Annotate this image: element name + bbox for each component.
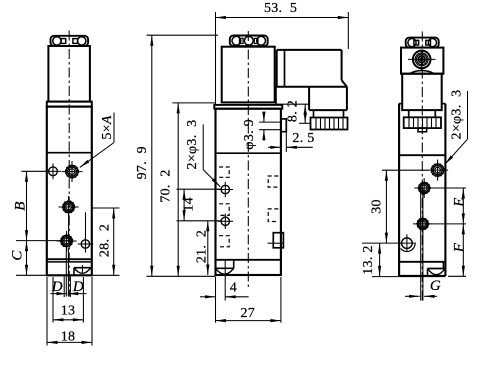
svg-text:2. 5: 2. 5 [292,131,314,146]
dimension C [26,241,28,276]
left view bottom recess dome [73,268,75,275]
dimension B extension lines [22,170,49,172]
svg-text:2×φ3. 3: 2×φ3. 3 [185,120,200,170]
hidden port cavities right column [268,176,278,187]
right view port 3 threaded [417,218,428,229]
pilot hole upper phi3.3 [221,185,229,193]
connector bracket [275,87,277,104]
svg-text:18: 18 [61,330,76,345]
pilot port tab phi3.9 [281,119,286,132]
connector terminal ribbed block [311,118,348,130]
right view mounting hole with counterbore [402,238,413,249]
dimension 53.5 [215,12,217,105]
svg-text:D: D [72,279,84,295]
svg-text:C: C [9,250,25,261]
svg-text:53. 5: 53. 5 [264,1,297,16]
dimension D right [68,293,87,295]
right view bottom recess dome [427,269,429,277]
svg-text:E: E [452,197,468,207]
right view terminal ribbed block [404,117,441,128]
svg-text:30: 30 [370,199,385,214]
dimension 27 [215,277,217,323]
svg-text:70. 2: 70. 2 [159,169,174,202]
middle view body section line [216,152,281,154]
svg-text:13. 2: 13. 2 [361,245,376,275]
dimension D left [51,293,67,295]
dimension 13 [52,277,54,323]
right view centerline [421,32,423,301]
svg-text:G: G [430,278,441,294]
svg-text:8. 2: 8. 2 [286,100,301,122]
right view bottom tab [418,128,427,132]
right view connector face arc [409,71,434,74]
left view port 1 threaded [66,166,78,178]
svg-text:2×φ3. 3: 2×φ3. 3 [449,90,464,140]
left view mounting hole top-left [49,167,58,176]
left view upper solenoid section [48,46,90,102]
left view mounting hole bottom-right [81,240,89,248]
svg-text:13: 13 [61,304,76,319]
svg-text:φ3. 9: φ3. 9 [242,119,257,150]
side clamp tab [273,233,283,248]
middle view adapter plate [214,105,282,109]
left view body section line [47,152,92,154]
right view connector face box [401,48,443,74]
right view cable entry circles [413,51,431,69]
left view adapter plate [47,102,92,107]
dimension 4 [224,261,226,301]
dimension E [432,187,466,189]
dimension 30 [382,169,428,171]
dimension 2.5 [280,132,282,152]
svg-text:5×A: 5×A [100,115,115,140]
dimension F [462,224,464,276]
connector neck [313,110,315,117]
pilot hole lower phi3.3 [221,217,229,225]
left view port 2 threaded [63,201,74,212]
left view mounting cap with nuts [51,36,89,46]
dimension G [405,295,420,297]
dimension 70.2 [172,102,215,104]
connector lower box [308,87,310,110]
right view mounting cap with nuts [406,38,439,48]
svg-text:F: F [452,242,468,253]
left view valve body [47,107,92,276]
svg-text:4: 4 [230,281,237,296]
svg-text:21. 2: 21. 2 [195,230,210,263]
left view base plate lines [47,258,92,260]
right view coil body [402,74,442,110]
middle view centerline [247,31,249,290]
middle view mounting cap with nuts [230,36,268,47]
right view port 1 threaded [432,164,444,176]
middle view base plate line [216,259,281,261]
svg-text:97. 9: 97. 9 [135,146,150,179]
right view plate edges [399,103,402,105]
dimension 97.9 [147,34,219,36]
left view port 3 threaded [61,235,72,246]
dimension 13.2 [379,243,381,276]
dimension 18 [46,277,48,346]
middle view bottom notch [233,260,235,269]
svg-text:27: 27 [240,306,255,321]
right view body section line [399,154,445,156]
dimension phi3.9 [263,112,265,122]
dimension 14 [177,188,222,190]
dimension D extension lines [63,277,65,298]
right view stem slot lines [420,188,422,301]
middle view valve body [216,109,281,275]
right view body sides [398,104,400,276]
dimension 28.2 [93,207,120,209]
hidden port cavities left column [219,167,229,177]
dimension 21.2 [207,221,209,275]
middle view solenoid coil [222,47,275,103]
svg-text:14: 14 [181,197,196,212]
connector housing box [277,49,342,51]
left view centerline [68,31,70,297]
dimension 8.2 [304,104,306,123]
svg-text:B: B [13,201,29,210]
right view base plate line [399,261,445,263]
left view exhaust slot lines [65,248,67,297]
right view connector neck [408,110,410,117]
right view port 2 threaded [419,183,430,194]
dimension B [26,171,28,240]
svg-text:28. 2: 28. 2 [97,224,112,257]
